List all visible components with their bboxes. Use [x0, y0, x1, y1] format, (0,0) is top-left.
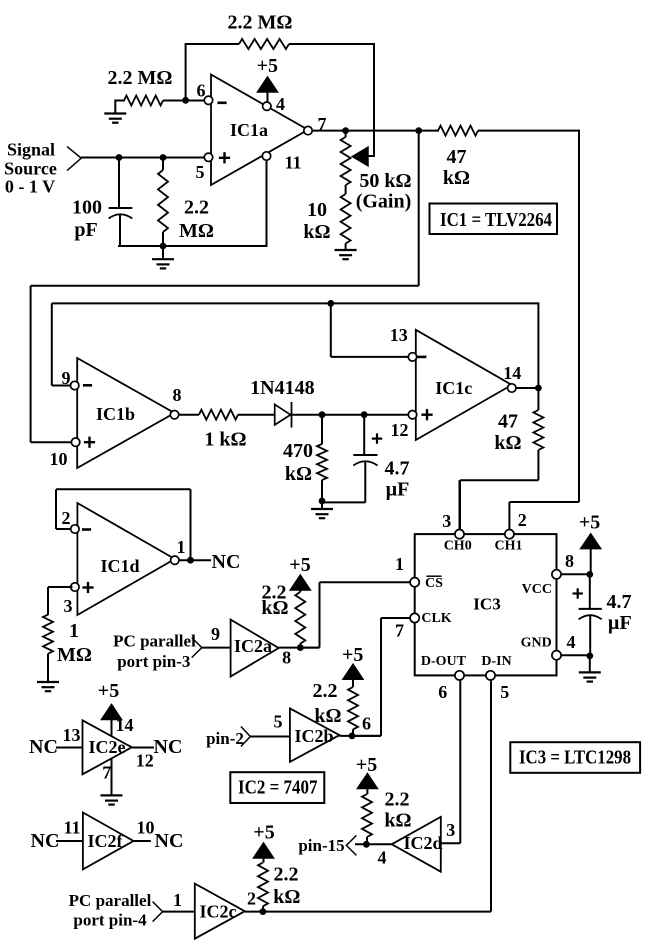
pin label 12 — [391, 420, 409, 440]
svg-text:IC1 = TLV2264: IC1 = TLV2264 — [440, 209, 552, 231]
+5 supply at IC2b — [342, 644, 363, 687]
wire: pin 4 to ground node — [561, 654, 590, 656]
svg-text:10: 10 — [307, 199, 327, 221]
minus sign IC1c — [417, 356, 426, 359]
label 2.2 k&#937; (IC2a) — [261, 582, 288, 619]
label 2.2 M&#937; (pin 6) — [108, 67, 173, 89]
pin 4 terminal — [263, 102, 271, 110]
svg-text:10: 10 — [50, 449, 68, 469]
potentiometer wiper arrow — [352, 147, 368, 166]
svg-text:NC: NC — [212, 551, 241, 573]
pin label 2 (CH1) — [518, 510, 527, 530]
label IC1c — [435, 378, 472, 398]
svg-text:µF: µF — [608, 612, 632, 634]
pin label 13 — [390, 325, 408, 345]
pin 2 terminal — [71, 525, 79, 533]
svg-text:IC2e: IC2e — [89, 737, 126, 757]
svg-text:4: 4 — [378, 847, 387, 867]
svg-text:2.2: 2.2 — [313, 680, 338, 702]
svg-text:pin-15: pin-15 — [298, 836, 344, 855]
label PC parallel port pin-4 — [69, 891, 152, 930]
svg-text:12: 12 — [136, 750, 154, 770]
svg-text:2: 2 — [247, 889, 256, 909]
svg-text:IC1d: IC1d — [100, 556, 139, 576]
pin CH0 terminal — [455, 530, 464, 539]
pin 11 terminal — [262, 152, 270, 160]
junction at output node — [415, 127, 422, 134]
pin label 6 (D-OUT) — [438, 682, 447, 702]
pin label 7 — [102, 762, 111, 782]
pin CS terminal — [410, 578, 419, 587]
pin CLK terminal — [410, 613, 419, 622]
label pin-15 — [298, 836, 344, 855]
svg-text:470: 470 — [283, 440, 313, 462]
svg-text:D-IN: D-IN — [481, 654, 511, 669]
pin 1 terminal — [171, 556, 179, 564]
wire: pin 8 to VCC node — [561, 573, 590, 575]
resistor 2.2 k&#937; (IC2b pull-up) — [348, 687, 358, 736]
junction at 2.2 M&#937; tap — [160, 154, 167, 161]
wire: across top of IC1b — [31, 285, 419, 287]
junction at ground rail — [160, 243, 167, 250]
wire: IC2d output west — [355, 843, 392, 845]
label 100 pF — [72, 197, 102, 242]
svg-text:kΩ: kΩ — [303, 221, 330, 243]
label IC2e — [89, 737, 126, 757]
pin label 2 — [247, 889, 256, 909]
ground under 1 M&#937; — [37, 682, 59, 691]
label GND — [521, 636, 552, 651]
pin D-IN terminal — [486, 671, 495, 680]
label NC (pin 12) — [154, 736, 183, 758]
pin label 11 — [284, 153, 301, 173]
label 2.2 M&#937; (pin 5) — [179, 197, 214, 243]
wire: pin-6 node up to feedback — [185, 44, 187, 100]
svg-text:11: 11 — [284, 153, 301, 173]
pin label 9 — [211, 624, 220, 644]
pin 3 terminal — [71, 583, 79, 591]
svg-text:port pin-4: port pin-4 — [73, 911, 147, 930]
svg-text:100: 100 — [72, 197, 102, 219]
label 2.2 k&#937; (IC2d) — [384, 788, 411, 831]
wire: IC2f output — [134, 840, 151, 842]
pin label 6 — [362, 713, 371, 733]
svg-text:µF: µF — [386, 479, 410, 501]
junction at ground node (pin 4) — [586, 653, 593, 660]
svg-text:D-OUT: D-OUT — [421, 654, 467, 669]
svg-text:1: 1 — [69, 620, 79, 642]
label IC2f — [88, 831, 124, 851]
resistor 47 k&#937; (right) — [533, 388, 543, 480]
svg-text:CLK: CLK — [421, 611, 451, 626]
ground at 2.2 M&#937; input resistor — [104, 114, 126, 123]
label IC1a — [230, 120, 268, 140]
svg-text:CS: CS — [425, 576, 443, 591]
label 1 M&#937; — [57, 620, 92, 666]
wire: feedback rail down to pin 14 — [537, 302, 539, 388]
svg-text:14: 14 — [116, 715, 134, 735]
plus sign IC1d — [82, 582, 93, 593]
label IC1b — [96, 404, 135, 424]
svg-text:IC2c: IC2c — [200, 902, 237, 922]
minus sign IC1a — [217, 102, 226, 105]
resistor 470 k&#937; — [317, 415, 327, 503]
svg-text:9: 9 — [62, 368, 71, 388]
svg-text:NC: NC — [31, 830, 60, 852]
pin 8 terminal — [170, 411, 178, 419]
svg-text:kΩ: kΩ — [273, 886, 300, 908]
svg-text:4.7: 4.7 — [607, 591, 632, 613]
resistor 2.2 k&#937; (IC2d pull-up) — [362, 794, 372, 844]
buffer IC2f — [83, 813, 134, 870]
pin D-OUT terminal — [455, 671, 464, 680]
pin label 3 — [446, 820, 455, 840]
pin label 1 — [173, 890, 182, 910]
input arrow pin-2 — [241, 727, 250, 747]
diode D1 1N4148 — [275, 402, 292, 428]
+5 supply at IC2a — [289, 554, 310, 592]
wire: IC1c output feedback rail — [52, 302, 539, 304]
svg-text:IC2f: IC2f — [88, 831, 124, 851]
junction at pin 1 — [187, 557, 194, 564]
label NC (pin 13) — [29, 736, 58, 758]
wire: pin 11 down to ground rail — [266, 158, 268, 246]
label + polarity (supply cap) — [573, 588, 583, 598]
label IC1d — [100, 556, 139, 576]
buffer IC2b — [290, 708, 340, 762]
label 2.2 M&#937; (feedback) — [228, 12, 293, 34]
label VCC — [522, 582, 552, 597]
plus sign IC1a — [219, 152, 230, 163]
wire: 1 k&#937; to diode — [238, 414, 275, 416]
junction at IC2d pull-up — [363, 841, 370, 848]
label IC2c — [200, 902, 237, 922]
capacitor 4.7 &#181;F (supply) — [579, 574, 602, 656]
svg-text:2: 2 — [62, 508, 71, 528]
resistor 1 M&#937; — [43, 615, 53, 682]
label IC3 — [473, 595, 500, 614]
svg-text:NC: NC — [29, 736, 58, 758]
svg-text:4.7: 4.7 — [385, 458, 410, 480]
pin label 3 — [64, 596, 73, 616]
wire: resistor to pin 6 — [163, 100, 205, 102]
wire: 47 k&#937; to right rail — [478, 130, 580, 132]
label D-IN — [481, 654, 511, 669]
svg-text:+5: +5 — [289, 554, 310, 576]
op-amp IC1a — [211, 75, 308, 186]
svg-text:+5: +5 — [579, 512, 600, 534]
junction at IC2a pull-up — [297, 644, 304, 651]
svg-text:IC2b: IC2b — [294, 726, 333, 746]
wire: CS to IC2a output — [300, 582, 410, 647]
pin label 13 — [63, 725, 81, 745]
pin 6 terminal — [204, 96, 212, 104]
junction at 4.7 &#181;F — [361, 411, 368, 418]
pin label 1 — [177, 537, 186, 557]
wire: IC2c output to D-IN — [245, 911, 491, 913]
svg-text:4: 4 — [276, 94, 285, 114]
+5 supply at IC2c — [253, 822, 274, 863]
output arrow pin-15 — [346, 835, 356, 855]
label NC (pin 10) — [155, 830, 184, 852]
svg-text:1: 1 — [173, 890, 182, 910]
svg-text:2.2: 2.2 — [274, 864, 299, 886]
svg-text:+5: +5 — [356, 754, 377, 776]
svg-text:kΩ: kΩ — [494, 432, 521, 454]
wire: NC to IC2e input — [56, 747, 83, 749]
label 4.7 &#181;F (peak hold) — [385, 458, 410, 501]
wire: ground rail under IC1a — [118, 245, 268, 247]
+5 supply at IC3 pin 8 — [579, 512, 601, 549]
svg-text:5: 5 — [196, 162, 205, 182]
wire: IC2a output east — [279, 647, 320, 649]
svg-text:CH0: CH0 — [444, 539, 472, 554]
pin label 7 (CLK) — [395, 621, 404, 641]
wire: arrow to IC2a input — [202, 647, 231, 649]
pin label 12 — [136, 750, 154, 770]
svg-text:kΩ: kΩ — [285, 463, 312, 485]
wire: +5 stem to pin 4 — [267, 90, 269, 102]
svg-text:6: 6 — [197, 81, 206, 101]
pin label 14 — [116, 715, 134, 735]
svg-text:5: 5 — [274, 711, 283, 731]
svg-text:2.2: 2.2 — [385, 788, 410, 810]
svg-text:13: 13 — [63, 725, 81, 745]
wire: pin 3 down — [48, 587, 73, 615]
label 47 k&#937; (top) — [443, 146, 470, 189]
pin label 4 (GND) — [567, 632, 576, 652]
svg-text:kΩ: kΩ — [384, 809, 411, 831]
junction at pot top — [342, 127, 349, 134]
wire: CH0 stub — [459, 480, 461, 530]
junction at IC2c pull-up — [260, 908, 267, 915]
label 10 k&#937; — [303, 199, 330, 243]
pin 8 VCC terminal — [552, 570, 561, 579]
label CH1 — [495, 539, 523, 554]
svg-text:MΩ: MΩ — [179, 220, 214, 242]
svg-text:47: 47 — [498, 410, 518, 432]
pin label 5 — [196, 162, 205, 182]
capacitor 4.7 &#181;F (peak hold) — [353, 415, 377, 503]
wire: wiper stub — [367, 155, 375, 157]
wire: IC2e output — [132, 747, 154, 749]
svg-text:+5: +5 — [257, 55, 278, 77]
wire: right rail down to CH1 — [509, 130, 579, 531]
label CLK — [421, 611, 451, 626]
label IC2d — [403, 833, 442, 853]
pin label 8 — [282, 648, 291, 668]
pin label 8 (VCC) — [565, 551, 574, 571]
buffer IC2a — [231, 620, 279, 677]
+5 supply at IC1a pin 4 — [257, 55, 278, 92]
svg-text:IC2 = 7407: IC2 = 7407 — [238, 777, 318, 799]
op-amp IC1d — [77, 503, 174, 615]
svg-text:4: 4 — [567, 632, 576, 652]
pin label 8 — [173, 385, 182, 405]
pin 10 terminal — [71, 438, 79, 446]
label 1N4148 — [250, 377, 314, 399]
svg-text:VCC: VCC — [522, 582, 552, 597]
box IC2 = 7407 — [230, 772, 324, 803]
svg-text:PC parallel: PC parallel — [113, 632, 196, 651]
resistor 47 k&#937; (top) — [438, 126, 478, 136]
svg-text:PC parallel: PC parallel — [69, 891, 152, 910]
wire: IC1d feedback — [56, 489, 191, 560]
+5 supply at IC2e pin 14 — [98, 680, 122, 737]
svg-text:IC1c: IC1c — [435, 378, 472, 398]
junction at 100 pF tap — [116, 154, 123, 161]
svg-text:7: 7 — [395, 621, 404, 641]
wire: arrow to IC2c input — [163, 911, 195, 913]
svg-text:IC1b: IC1b — [96, 404, 135, 424]
resistor 2.2 k&#937; (IC2a pull-up) — [295, 592, 305, 648]
svg-text:pF: pF — [74, 219, 97, 241]
svg-text:1: 1 — [395, 554, 404, 574]
pin 5 terminal — [204, 153, 212, 161]
label 2.2 k&#937; (IC2c) — [273, 864, 300, 909]
label 4.7 &#181;F (supply) — [607, 591, 632, 634]
wire: 47 k&#937; to CH0 — [460, 480, 538, 530]
svg-text:port pin-3: port pin-3 — [117, 652, 190, 671]
label NC (pin 11) — [31, 830, 60, 852]
pin label 3 (CH0) — [442, 511, 451, 531]
label CS with overline — [425, 576, 443, 591]
svg-text:1: 1 — [177, 537, 186, 557]
svg-text:2.2 MΩ: 2.2 MΩ — [108, 67, 173, 89]
plus sign IC1c — [421, 409, 432, 420]
pin label 7 — [318, 114, 327, 134]
svg-text:2.2: 2.2 — [184, 197, 209, 219]
label 50 k&#937; (Gain) — [356, 170, 412, 213]
pin 13 terminal — [408, 353, 416, 361]
ground under 470 k&#937; — [311, 502, 333, 518]
pin label 14 — [503, 363, 521, 383]
ground under IC1a — [152, 246, 174, 268]
chip IC3 LTC1298 — [415, 534, 557, 675]
buffer IC2c — [195, 884, 245, 939]
buffer IC2e — [83, 720, 132, 774]
pin label 5 (D-IN) — [500, 682, 509, 702]
svg-text:3: 3 — [64, 596, 73, 616]
svg-text:3: 3 — [442, 511, 451, 531]
svg-text:2: 2 — [518, 510, 527, 530]
svg-text:6: 6 — [362, 713, 371, 733]
svg-text:50 kΩ: 50 kΩ — [359, 170, 411, 192]
minus sign IC1b — [83, 384, 92, 387]
svg-text:+5: +5 — [253, 822, 274, 844]
ground at IC3 — [579, 656, 601, 682]
pin label 2 — [62, 508, 71, 528]
pin 12 terminal — [408, 411, 416, 419]
svg-text:kΩ: kΩ — [261, 597, 288, 619]
pin label 4 — [276, 94, 285, 114]
wire: pin 1 to NC — [179, 559, 211, 561]
svg-text:9: 9 — [211, 624, 220, 644]
svg-text:IC3: IC3 — [473, 595, 500, 614]
junction at ground node — [319, 498, 326, 505]
label D-OUT — [421, 654, 467, 669]
svg-text:3: 3 — [446, 820, 455, 840]
wire: +5 down to VCC node — [590, 549, 592, 575]
plus sign IC1b — [84, 437, 95, 448]
pin label 6 — [197, 81, 206, 101]
ground under potentiometer — [335, 250, 357, 259]
pin label 4 — [378, 847, 387, 867]
svg-text:CH1: CH1 — [495, 539, 523, 554]
wire: ground stub to 2.2 M&#937; input resistor — [115, 100, 125, 114]
svg-text:IC3 = LTC1298: IC3 = LTC1298 — [519, 747, 631, 769]
wire: capacitor bottom to ground node — [322, 501, 365, 503]
junction at IC2b pull-up — [349, 733, 356, 740]
svg-text:pin-2: pin-2 — [206, 729, 244, 748]
label Signal Source 0 - 1 V — [4, 140, 57, 197]
label pin-2 — [206, 729, 244, 748]
label 47 k&#937; (right) — [494, 410, 521, 454]
svg-text:14: 14 — [503, 363, 521, 383]
wire: down to pin 9 — [52, 303, 71, 385]
input arrow pin-3 — [192, 638, 202, 658]
input arrow signal source — [67, 147, 81, 171]
resistor 2.2 k&#937; (IC2c pull-up) — [258, 863, 268, 912]
pin 14 terminal — [508, 384, 516, 392]
wire: feedback down to pot wiper — [373, 43, 375, 156]
label NC (pin 1) — [212, 551, 241, 573]
junction at pin 6 node — [182, 97, 189, 104]
capacitor 100 pF — [109, 158, 133, 247]
svg-text:IC2a: IC2a — [234, 636, 272, 656]
svg-text:(Gain): (Gain) — [356, 191, 412, 213]
box IC3 = LTC1298 — [510, 742, 640, 773]
resistor 2.2 M&#937; at pin 6 — [124, 96, 163, 106]
junction at pin 13 branch — [327, 300, 334, 307]
pin 7 terminal — [304, 126, 312, 134]
minus sign IC1d — [82, 528, 91, 531]
junction at pin 14 — [535, 385, 542, 392]
wire: D-OUT down to IC2d — [441, 680, 461, 844]
svg-text:2.2 MΩ: 2.2 MΩ — [228, 12, 293, 34]
wire: NC to IC2f input — [56, 840, 83, 842]
svg-text:Source: Source — [4, 159, 57, 179]
svg-text:MΩ: MΩ — [57, 644, 92, 666]
svg-text:IC2d: IC2d — [403, 833, 442, 853]
label 2.2 k&#937; (IC2b) — [313, 680, 342, 727]
svg-text:1 kΩ: 1 kΩ — [204, 429, 246, 451]
pin 4 GND terminal — [552, 651, 561, 660]
wire: output node down — [418, 131, 420, 286]
svg-text:0 - 1 V: 0 - 1 V — [5, 177, 55, 197]
wire: left rail down to pin 10 — [31, 286, 72, 442]
pin label 11 — [63, 818, 80, 838]
junction at 470 k&#937; — [319, 411, 326, 418]
wire: pin 14 to junction — [516, 387, 538, 389]
wire: feedback top right segment — [289, 43, 375, 45]
wire: IC2b output east — [340, 735, 382, 737]
svg-text:GND: GND — [521, 636, 552, 651]
wire: CLK to IC2b output — [352, 618, 411, 736]
pin 9 terminal — [71, 381, 79, 389]
svg-text:13: 13 — [390, 325, 408, 345]
svg-text:1N4148: 1N4148 — [250, 377, 314, 399]
svg-text:8: 8 — [282, 648, 291, 668]
+5 supply at IC2d — [356, 754, 378, 794]
junction at VCC node — [586, 571, 593, 578]
wire: branch down to pin 13 — [331, 303, 409, 357]
wire: pin 7 to ground — [111, 759, 113, 796]
wire: diode to pin 12 — [292, 414, 409, 416]
label CH0 — [444, 539, 472, 554]
pin label 9 — [62, 368, 71, 388]
svg-text:IC1a: IC1a — [230, 120, 268, 140]
